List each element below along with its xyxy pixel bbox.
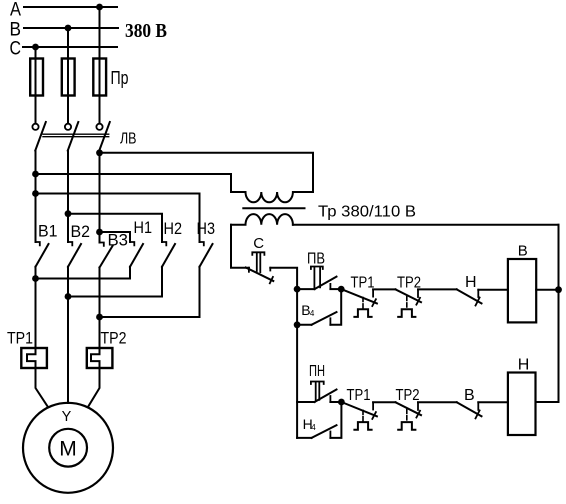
svg-text:М: М	[59, 437, 77, 460]
wire C to left rail	[270, 268, 297, 289]
junction V1-N1	[32, 275, 39, 282]
wire left rail	[296, 289, 298, 438]
button PV left wire	[297, 288, 314, 290]
contact V interlock blade tick	[476, 410, 480, 418]
junction rail coil V	[555, 286, 562, 293]
thermal element TR1 row2 symbol	[354, 422, 371, 430]
contact N1 blade	[130, 244, 143, 267]
switch LV linkage bar	[43, 134, 109, 137]
wire TR2 to V row2	[418, 401, 457, 403]
contact TR2 row2 blade tick	[416, 411, 420, 418]
thermal relay TR1 heater box	[21, 348, 47, 368]
wire phase C drop to fuse 1	[35, 47, 37, 124]
contact TR1 row2 blade tick	[372, 412, 376, 419]
wire phase A	[24, 6, 117, 8]
svg-text:380 В: 380 В	[125, 20, 167, 42]
svg-text:ТР2: ТР2	[396, 387, 420, 404]
wire phase 2 to motor	[67, 297, 69, 404]
junction after PN	[338, 399, 345, 406]
contact N2 blade	[162, 244, 175, 267]
svg-text:С: С	[10, 39, 22, 60]
wire heater TR1 to motor	[36, 368, 48, 407]
contact N4 blade	[312, 425, 337, 438]
button C left tick	[248, 268, 250, 272]
svg-text:4: 4	[311, 423, 316, 432]
switch LV pole 1 hinge circle	[32, 124, 38, 130]
contact TR1 row1 right terminal	[372, 289, 374, 296]
wire V1 bottom to heater TR1	[35, 267, 37, 348]
wire N2 drop	[161, 267, 163, 297]
svg-text:В: В	[464, 387, 475, 404]
svg-text:Y: Y	[62, 409, 72, 425]
thermal relay TR2 heater box	[87, 348, 113, 368]
wire pole 1 to transformer left	[36, 174, 232, 192]
button PV right terminal	[329, 284, 331, 289]
button PN plunger	[311, 382, 324, 400]
wire N4 up to junction	[330, 402, 341, 438]
contact TR1 row1 blade	[341, 289, 377, 303]
contact V interlock blade	[457, 402, 482, 416]
wire N3 drop	[199, 267, 201, 317]
wire right rail	[558, 225, 560, 402]
wire N2 bottom to V2	[68, 296, 162, 298]
svg-text:4: 4	[310, 309, 315, 318]
junction phase C	[32, 44, 39, 51]
wire TR1 to TR2 row2	[373, 401, 395, 403]
thermal element TR2 row2	[406, 409, 408, 421]
junction pole 1 feed to N3	[32, 190, 39, 197]
contact TR2 row1 right terminal	[417, 289, 419, 297]
thermal element TR1 row2	[362, 410, 364, 421]
svg-text:В: В	[518, 243, 528, 260]
junction phase B	[65, 25, 72, 32]
contact TR2 row2 blade	[396, 402, 422, 415]
button C blade end tick	[270, 277, 273, 283]
transformer Tr core	[243, 207, 304, 209]
svg-text:Н3: Н3	[197, 219, 216, 238]
contact N4 left wire	[297, 437, 311, 439]
fuse Pr 2	[62, 59, 75, 96]
button PN blade	[315, 390, 337, 403]
svg-text:Н2: Н2	[164, 219, 183, 238]
contact TR2 row1 blade	[396, 289, 422, 302]
switch LV pole 2 blade	[68, 122, 79, 151]
wire pole 3 to contact N1	[100, 232, 131, 242]
thermal element TR1 row1	[362, 298, 364, 309]
wire secondary left drop	[231, 225, 249, 268]
junction pole 3 feed to N1	[96, 229, 103, 236]
button C blade	[246, 268, 273, 282]
wire heater TR2 to motor	[88, 368, 99, 407]
wire PV to junction	[330, 288, 341, 290]
wire phase C	[23, 46, 117, 48]
contact N interlock blade tick	[476, 298, 480, 306]
contact V interlock right terminal	[477, 402, 479, 410]
junction pole 1 feed to transformer	[32, 171, 39, 178]
fuse Pr 3	[93, 59, 106, 96]
button PV plunger	[311, 267, 323, 288]
contact N4 right terminal	[329, 432, 331, 438]
svg-text:В2: В2	[71, 222, 91, 241]
coil V box	[508, 259, 536, 322]
thermal element TR1 row1 symbol	[354, 309, 371, 317]
svg-text:Пр: Пр	[111, 68, 129, 88]
wire V2 bottom down to motor	[67, 267, 69, 297]
contact N interlock right terminal	[477, 290, 479, 297]
junction left rail V4	[294, 321, 301, 328]
wire N1 bottom to V1	[36, 278, 131, 280]
contact N3 blade	[200, 244, 213, 267]
contact V2 blade	[68, 244, 81, 267]
fuse Pr 1	[30, 59, 43, 96]
wire TR1 to TR2 row1	[373, 288, 395, 290]
wire V3 bottom down	[99, 268, 101, 349]
svg-text:ЛВ: ЛВ	[120, 131, 137, 148]
contact V4 right terminal	[329, 318, 331, 325]
button PN left wire	[297, 401, 314, 403]
switch LV pole 1 blade	[35, 122, 46, 151]
svg-text:Н: Н	[518, 357, 530, 374]
wire pole 1 to contact N3	[36, 194, 200, 243]
motor inner circle	[49, 429, 87, 467]
wire phase A drop to fuse 3	[99, 7, 101, 124]
svg-text:ТР1: ТР1	[351, 274, 375, 291]
wire N1 drop	[129, 267, 131, 279]
wire V4 up to junction	[330, 289, 341, 325]
wire V to coil N	[478, 401, 508, 403]
contact TR1 row2 right terminal	[372, 402, 374, 409]
svg-text:ПВ: ПВ	[307, 250, 325, 267]
svg-text:Н1: Н1	[134, 218, 153, 237]
contact N interlock blade	[457, 289, 482, 303]
contact V4 blade	[312, 312, 337, 325]
contact N2 fixed tick	[162, 242, 166, 245]
wire pole 3 to transformer right	[100, 153, 314, 192]
contact TR1 row2 blade	[341, 402, 377, 416]
switch LV pole 2 hinge circle	[65, 124, 71, 130]
button C right terminal	[269, 268, 271, 271]
svg-text:А: А	[10, 0, 21, 21]
junction after PV	[338, 286, 345, 293]
junction left rail row 1	[294, 286, 301, 293]
wire pole 3 down	[99, 151, 101, 243]
contact N1 fixed tick	[130, 242, 134, 245]
contact TR2 row1 blade tick	[416, 298, 420, 305]
junction phase A	[96, 4, 103, 11]
wire PN to junction	[330, 401, 341, 403]
svg-text:Тр 380/110 В: Тр 380/110 В	[318, 204, 416, 221]
transformer Tr primary winding	[231, 192, 313, 202]
contact V3 fixed tick	[100, 243, 104, 246]
contact V4 left wire	[297, 324, 311, 326]
wire phase B drop to fuse 2	[67, 28, 69, 124]
wire phase B	[24, 27, 118, 29]
wire coil V to rail	[536, 289, 558, 291]
junction pole 3 feed to transformer	[96, 149, 103, 156]
svg-text:В1: В1	[38, 222, 58, 241]
wire N3 bottom to V3	[100, 316, 200, 318]
svg-text:ТР1: ТР1	[7, 329, 33, 348]
button C plunger	[252, 252, 264, 272]
thermal element TR2 row2 symbol	[398, 422, 415, 430]
svg-text:ТР2: ТР2	[101, 329, 127, 348]
transformer Tr secondary winding	[231, 214, 293, 225]
svg-text:В: В	[10, 20, 22, 41]
switch LV pole 3 hinge circle	[96, 124, 102, 130]
contact V1 blade	[36, 244, 49, 267]
wire secondary right to rail	[293, 224, 559, 226]
svg-text:В3: В3	[108, 231, 129, 250]
thermal element TR2 row1	[406, 297, 408, 309]
wire pole 1 down	[35, 151, 37, 243]
contact V2 fixed tick	[68, 242, 72, 245]
contact TR1 row1 blade tick	[372, 299, 376, 306]
junction V2-N2	[65, 293, 72, 300]
wire coil N to rail	[536, 401, 559, 403]
junction V3-N3	[96, 314, 103, 321]
svg-text:С: С	[253, 235, 264, 252]
wire TR2 to N row1	[418, 288, 457, 290]
coil N box	[508, 373, 536, 436]
svg-text:Н: Н	[465, 274, 477, 291]
wire pole 2 to contact N2	[68, 214, 162, 242]
contact V3 blade	[100, 246, 113, 268]
button PN right terminal	[329, 396, 331, 402]
svg-text:ТР1: ТР1	[347, 387, 371, 404]
contact TR2 row2 right terminal	[417, 402, 419, 410]
motor M stator circle	[23, 403, 113, 493]
thermal relay TR2 heater jog	[91, 348, 100, 368]
button PV blade	[315, 277, 337, 290]
thermal relay TR1 heater jog	[27, 348, 36, 368]
switch LV pole 3 blade	[99, 122, 110, 151]
contact V1 fixed tick	[36, 242, 40, 245]
wire N to coil V	[478, 289, 508, 291]
junction pole 2 feed to N2	[65, 210, 72, 217]
thermal element TR2 row1 symbol	[398, 309, 415, 317]
wire pole 2 down	[67, 151, 69, 243]
contact N3 fixed tick	[200, 242, 204, 245]
svg-text:ПН: ПН	[309, 363, 325, 380]
